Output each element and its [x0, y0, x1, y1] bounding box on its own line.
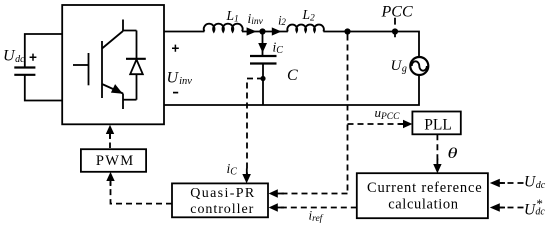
svg-text:Udc: Udc — [524, 174, 546, 192]
arrow (iC into controller) — [242, 174, 251, 183]
wire (Udc input dashed) — [500, 182, 524, 184]
inductor L1 — [204, 24, 243, 32]
wire (uPCC dashed vertical) — [347, 35, 349, 194]
wire (inverter to L1) — [164, 31, 204, 33]
wire (node to L2) — [263, 31, 288, 33]
transistor Q1 emitter arrow — [111, 84, 123, 94]
arrow (theta into box) — [433, 164, 441, 173]
label + (inverter out) — [172, 45, 179, 52]
inductor L2 — [287, 25, 324, 32]
svg-text:iC: iC — [273, 40, 284, 57]
svg-text:iC: iC — [227, 161, 238, 178]
svg-text:Uinv: Uinv — [167, 70, 193, 88]
wire (uPCC dashed into PLL) — [348, 123, 404, 125]
svg-text:U*dc: U*dc — [524, 196, 545, 219]
wire (DC source top lead) — [25, 34, 63, 68]
current arrow i_inv — [247, 27, 257, 35]
node A (filter node) — [259, 28, 265, 34]
svg-text:Ug: Ug — [391, 58, 407, 75]
wire (capacitor to bottom rail) — [262, 64, 264, 106]
current arrow iC (capacitor) — [258, 43, 267, 53]
box current reference calculation — [357, 173, 488, 218]
transistor Q1 (IGBT) — [73, 20, 137, 110]
label - (inverter out) — [173, 92, 178, 94]
wire (PCC tick) — [394, 18, 396, 38]
svg-text:L1: L1 — [226, 8, 239, 25]
svg-text:PWM: PWM — [96, 153, 135, 169]
current arrow i2 — [272, 27, 282, 35]
PWM box — [81, 149, 146, 172]
capacitor C — [250, 56, 277, 64]
wire (node to capacitor) — [262, 32, 264, 57]
svg-text:calculation: calculation — [388, 197, 459, 213]
wire (PWM to inverter dashed) — [109, 134, 111, 149]
wire (i2 feedback dashed into controller) — [278, 193, 348, 195]
AC source Ug — [410, 57, 428, 75]
wire (Udc* input dashed) — [500, 207, 524, 209]
svg-text:Current reference: Current reference — [367, 180, 482, 196]
svg-text:iref: iref — [309, 208, 324, 225]
wire (L2 to grid corner) — [323, 32, 419, 57]
svg-text:PLL: PLL — [424, 117, 452, 134]
PLL box — [412, 112, 460, 135]
wire (DC source bottom lead) — [25, 75, 63, 101]
svg-text:controller: controller — [190, 202, 254, 217]
arrow (into Quasi-PR upper) — [269, 189, 278, 198]
diode D1 — [126, 31, 146, 100]
node B (PCC feedback node) — [344, 28, 350, 34]
wire (iref dashed) — [278, 207, 357, 209]
node PCC — [392, 28, 398, 34]
wire (iC measurement dashed) — [247, 79, 263, 175]
wire (source to bottom rail) — [164, 75, 419, 105]
svg-text:i2: i2 — [278, 13, 286, 28]
capacitor Udc plates — [14, 68, 35, 75]
label + (dc side) — [30, 54, 37, 61]
arrow (into PWM) — [106, 172, 114, 181]
inverter box — [62, 5, 164, 124]
wire (L1 to node) — [242, 31, 262, 33]
svg-text:C: C — [287, 67, 298, 84]
arrow (into PLL) — [403, 120, 412, 128]
wire (theta dashed) — [436, 134, 438, 164]
svg-text:Udc: Udc — [3, 48, 25, 66]
svg-text:L2: L2 — [302, 7, 316, 24]
arrow (Udc into box) — [490, 179, 500, 188]
svg-text:θ: θ — [448, 146, 459, 162]
svg-text:Quasi-PR: Quasi-PR — [190, 186, 255, 201]
svg-text:PCC: PCC — [381, 4, 413, 21]
wire (controller to PWM dashed) — [111, 182, 173, 204]
svg-text:iinv: iinv — [248, 11, 264, 27]
controller box Quasi-PR — [172, 183, 268, 217]
svg-text:uPCC: uPCC — [375, 105, 401, 122]
arrow (iref into Quasi-PR) — [269, 203, 278, 212]
arrow (Udc* into box) — [490, 203, 500, 212]
node (iC tap) — [260, 76, 265, 81]
arrow (into inverter) — [106, 125, 114, 134]
